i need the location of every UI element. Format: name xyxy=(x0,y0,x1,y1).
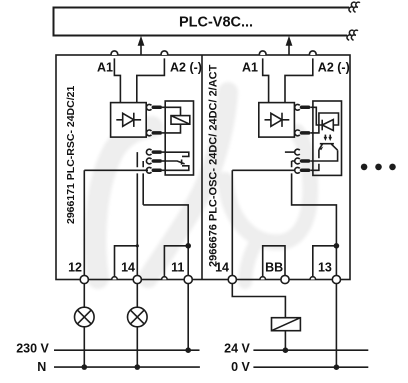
plug contact left-1 xyxy=(146,104,165,110)
24V supply line xyxy=(253,349,368,351)
terminal bump 14b xyxy=(112,277,118,280)
module divider xyxy=(201,55,203,280)
lamp E1 xyxy=(75,307,95,327)
svg-text:11: 11 xyxy=(171,261,184,275)
N supply line xyxy=(54,366,200,368)
wire A2 to bridge rectifier (right) xyxy=(285,58,313,102)
svg-text:A2 (-): A2 (-) xyxy=(318,61,350,75)
wire contact4 to terminal 11 xyxy=(143,161,188,280)
svg-text:0 V: 0 V xyxy=(231,360,250,374)
wire relay coil to contact2 xyxy=(165,124,180,133)
wire terminal 11 to 230V xyxy=(187,284,189,351)
wire terminal 12 to contact5 xyxy=(84,170,148,279)
plug contact right-4 xyxy=(295,158,311,164)
junction dot 11 xyxy=(185,243,191,249)
phototransistor Q1 xyxy=(319,144,338,151)
LED of optocoupler xyxy=(322,120,333,131)
junction dot lamp E1 / N xyxy=(82,364,88,370)
wire terminal 13 to 0V xyxy=(335,284,337,368)
wire terminal 12 to lamp E1 xyxy=(83,284,85,308)
optocoupler box U3 xyxy=(313,101,342,175)
bus bar PLC-V8C xyxy=(54,8,350,36)
relay common blade xyxy=(165,160,184,165)
svg-text:A1: A1 xyxy=(242,61,258,75)
plug contact left-5 xyxy=(146,167,165,173)
left module: bus arrow xyxy=(138,36,145,55)
svg-text:230 V: 230 V xyxy=(16,341,49,355)
svg-text:12: 12 xyxy=(68,261,82,275)
diode D1 xyxy=(116,113,141,127)
wire contact2 around to LED cathode xyxy=(313,113,339,133)
break mark top right xyxy=(349,2,360,12)
wire A2 to bridge rectifier (left) xyxy=(137,58,165,102)
wire lamp E2 to N xyxy=(136,327,138,367)
wire contact1 to LED anode xyxy=(313,107,322,125)
svg-text:A1: A1 xyxy=(97,61,113,75)
relay NO contact path xyxy=(165,152,189,156)
break mark bottom right xyxy=(347,30,358,40)
terminal circle 14R xyxy=(228,275,236,283)
bridge link terminal BB xyxy=(263,246,285,280)
module outline box xyxy=(56,55,350,280)
junction dot 11 / 230V xyxy=(185,347,191,353)
svg-text:2966676 PLC-OSC- 24DC/ 24DC/ 2: 2966676 PLC-OSC- 24DC/ 24DC/ 2/ACT xyxy=(208,64,220,267)
terminal circle 12 xyxy=(80,275,88,283)
svg-text:BB: BB xyxy=(265,261,283,275)
230V supply line xyxy=(54,349,200,351)
terminal A2 (left) bump xyxy=(161,51,168,55)
svg-text:2966171 PLC-RSC- 24DC/21: 2966171 PLC-RSC- 24DC/21 xyxy=(65,86,77,224)
terminal circle 13 xyxy=(332,275,340,283)
terminal bump BBb xyxy=(260,277,266,280)
wire A1 to bridge rectifier (right) xyxy=(263,58,269,102)
wire lamp E1 to N xyxy=(83,327,85,367)
diode D2 xyxy=(265,113,290,127)
relay coil K2 xyxy=(272,318,301,331)
bridge rectifier box U1 xyxy=(111,103,147,138)
plug contact right-1 xyxy=(294,104,313,110)
bridge link terminal 11 xyxy=(164,246,188,277)
junction dot lamp E2 / N xyxy=(135,364,141,370)
terminal circle 14 xyxy=(133,275,141,283)
0V supply line xyxy=(253,366,368,368)
svg-text:N: N xyxy=(37,360,46,374)
svg-text:14: 14 xyxy=(215,261,229,275)
wire collector to contact lower-3 (hop over emitter wire) xyxy=(310,150,319,171)
relay coil K1 xyxy=(171,116,190,125)
plug contact left-3 xyxy=(146,149,165,155)
plug contact left-4 xyxy=(146,158,165,164)
terminal bump 13b xyxy=(310,277,316,280)
LED emission arrows xyxy=(324,135,332,141)
continuation dots xyxy=(361,164,396,171)
terminal circle BB xyxy=(281,275,289,283)
plug contact right-2 xyxy=(294,130,313,136)
wire contact3 down to terminal 14 (with hop over horizontal) xyxy=(136,152,138,279)
junction dot K2 / 24V xyxy=(283,347,289,353)
wire contact4 to terminal 13 (hop over contact5 wire) xyxy=(292,161,337,280)
bridge rectifier box U2 xyxy=(259,103,295,138)
wire A1 to bridge rectifier (left) xyxy=(114,58,120,102)
svg-text:13: 13 xyxy=(318,261,332,275)
wire terminal 14 to lamp E2 xyxy=(136,284,138,308)
wire terminal 14R to relay coil K2 xyxy=(232,284,285,318)
svg-text:14: 14 xyxy=(121,261,135,275)
plug contact right-5 xyxy=(295,167,311,173)
wire relay coil K2 to 24V xyxy=(284,331,286,351)
wire emitter to contact lower-2 xyxy=(310,150,337,161)
terminal A1 (left) bump xyxy=(111,51,118,55)
svg-text:24 V: 24 V xyxy=(224,341,250,355)
junction dot 13 / 0V xyxy=(334,364,340,370)
svg-text:A2 (-): A2 (-) xyxy=(170,61,202,75)
terminal circle 11 xyxy=(184,275,192,283)
lamp E2 xyxy=(128,307,148,327)
junction dot 13 xyxy=(334,243,340,249)
junction dot 14 xyxy=(136,244,139,247)
bridge link terminal 14 xyxy=(115,246,138,277)
right module: bus arrow xyxy=(286,36,293,55)
terminal A1 (right) bump xyxy=(259,51,266,55)
relay NC contact path xyxy=(165,166,189,171)
terminal bump 11b xyxy=(162,277,168,280)
wire contact1 to relay coil xyxy=(165,107,180,115)
wire terminal 14 to contact5 xyxy=(232,170,295,279)
terminal A2 (right) bump xyxy=(310,51,317,55)
plug contact left-2 xyxy=(146,130,165,136)
bridge link terminal 13 xyxy=(313,246,337,277)
relay box K1 xyxy=(165,101,193,175)
unused plug contact stub xyxy=(285,149,300,155)
svg-text:PLC-V8C...: PLC-V8C... xyxy=(179,15,253,31)
